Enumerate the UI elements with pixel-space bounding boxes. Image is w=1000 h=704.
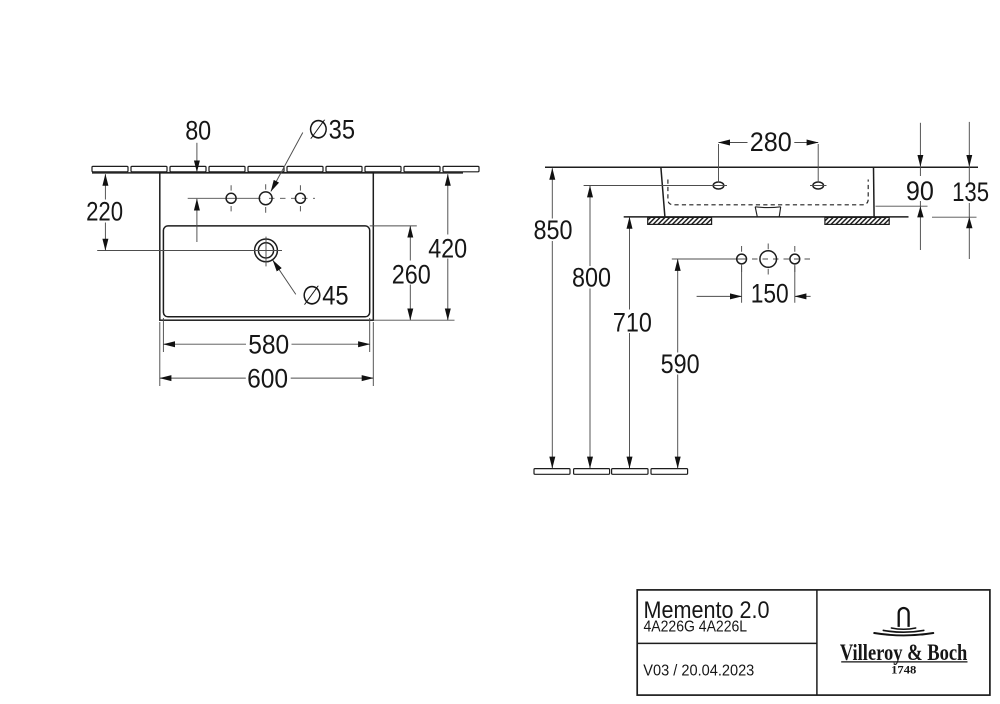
title block horizontal divider: [637, 642, 817, 644]
dimension 850: [532, 168, 573, 468]
basin silhouette left edge: [661, 167, 665, 217]
dimension 710: [612, 217, 653, 468]
hole group centerline: [672, 258, 747, 260]
dimension 420: [427, 174, 468, 320]
svg-text:4A226G 4A226L: 4A226G 4A226L: [644, 619, 748, 636]
svg-text:90: 90: [906, 176, 934, 206]
faucet hole left: [226, 185, 236, 211]
dimension 260 extension: [370, 225, 417, 227]
dimension 600: [160, 322, 373, 393]
dimension 420 extension: [373, 319, 454, 321]
dimension 580: [163, 318, 369, 360]
svg-text:280: 280: [750, 127, 792, 157]
extension 90: [876, 205, 928, 207]
dimension 80: [185, 116, 211, 243]
hatch pad left: [648, 217, 712, 224]
logo arch icon: [899, 608, 909, 627]
basin silhouette right edge: [873, 167, 876, 217]
dimension 800: [571, 186, 611, 468]
svg-text:V03 / 20.04.2023: V03 / 20.04.2023: [643, 663, 754, 680]
svg-text:420: 420: [428, 233, 467, 263]
faucet hole middle: [259, 184, 272, 213]
faucet centerline: [188, 197, 261, 199]
basin inner bowl: [163, 226, 369, 317]
extension 135: [932, 216, 977, 218]
svg-text:260: 260: [392, 260, 431, 290]
svg-text:220: 220: [86, 197, 123, 227]
logo underline: [841, 661, 967, 663]
dimension 590: [660, 259, 701, 468]
fixing hole left: [710, 144, 727, 189]
floor tile row: [534, 469, 688, 475]
label diameter 45: [273, 260, 349, 310]
svg-text:150: 150: [751, 278, 789, 308]
svg-text:600: 600: [247, 363, 288, 393]
title block vertical divider: [816, 590, 818, 695]
faucet hole right: [295, 185, 305, 211]
dimension 260: [391, 226, 431, 320]
hole group left: [737, 246, 747, 272]
dimension 280: [719, 127, 819, 157]
mounting line: [624, 216, 909, 218]
svg-text:1748: 1748: [891, 665, 916, 677]
hole group right: [790, 246, 800, 272]
svg-text:850: 850: [534, 215, 573, 245]
hidden bottom dashed contour: [668, 180, 868, 205]
logo ripple large: [874, 633, 933, 635]
svg-text:∅35: ∅35: [308, 115, 355, 145]
label diameter 35: [271, 115, 355, 192]
hole group middle: [760, 244, 777, 275]
dimension 135: [951, 122, 991, 259]
svg-text:580: 580: [248, 330, 289, 360]
hatch pad right: [825, 217, 889, 224]
svg-text:80: 80: [185, 116, 211, 146]
wall tile row: [92, 166, 479, 171]
dimension 150: [697, 264, 811, 308]
extension 800: [584, 185, 713, 187]
svg-text:135: 135: [952, 177, 989, 207]
rim level line: [545, 166, 978, 168]
title block frame: [637, 590, 990, 695]
drain boss tab: [755, 207, 781, 217]
logo ripple small: [891, 628, 915, 629]
svg-text:∅45: ∅45: [302, 281, 349, 311]
svg-text:800: 800: [572, 263, 611, 293]
fixing hole right: [810, 144, 827, 189]
drain centerline: [97, 250, 282, 252]
dimension 90: [905, 123, 936, 250]
svg-text:710: 710: [613, 308, 652, 338]
svg-text:590: 590: [661, 349, 700, 379]
logo ripple middle: [883, 630, 923, 632]
dimension 220: [85, 174, 124, 250]
drain hole: [255, 237, 278, 267]
basin outer rectangle: [160, 173, 373, 321]
wall line: [92, 172, 463, 174]
